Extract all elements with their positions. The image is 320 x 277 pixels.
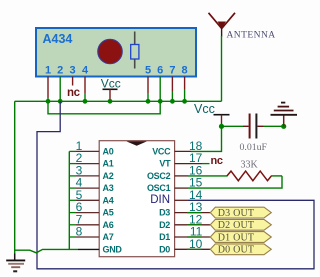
svg-text:8: 8 — [182, 65, 188, 77]
output tag D3 OUT — [210, 207, 271, 219]
svg-text:A6: A6 — [103, 220, 114, 230]
svg-text:OSC1: OSC1 — [147, 183, 171, 193]
ground (top right, inverted) — [271, 103, 298, 127]
svg-text:1: 1 — [45, 65, 51, 77]
junction dots on rail — [46, 99, 187, 104]
svg-text:5: 5 — [145, 65, 151, 77]
svg-text:D2: D2 — [159, 220, 170, 230]
svg-text:10: 10 — [189, 237, 203, 251]
ground (bottom left) — [6, 254, 25, 272]
svg-text:D2 OUT: D2 OUT — [218, 220, 254, 231]
svg-text:3: 3 — [70, 65, 76, 77]
svg-text:A1: A1 — [103, 159, 114, 169]
svg-text:DIN: DIN — [150, 194, 170, 206]
wire: vcc node down to IC pin 18 — [191, 126, 222, 151]
wire: left vertical rail down to ground — [14, 101, 16, 254]
svg-text:6: 6 — [157, 65, 163, 77]
svg-text:D0 OUT: D0 OUT — [218, 245, 254, 256]
wire: vcc node to capacitor — [222, 125, 244, 127]
svg-text:D3 OUT: D3 OUT — [218, 208, 254, 219]
svg-text:A0: A0 — [103, 146, 114, 156]
svg-text:nc: nc — [211, 155, 223, 167]
svg-text:4: 4 — [82, 65, 89, 77]
wire: capacitor to ground node — [264, 125, 284, 127]
pin 4 stub — [84, 77, 86, 102]
node ground junction — [281, 124, 286, 129]
svg-text:A4: A4 — [103, 195, 114, 205]
svg-text:nc: nc — [67, 87, 81, 99]
right pin stubs — [175, 151, 211, 249]
svg-text:GND: GND — [103, 244, 123, 254]
svg-text:D0: D0 — [159, 244, 170, 254]
pin 7 stub — [171, 77, 173, 102]
capacitor C1 — [243, 114, 264, 139]
wire: lower parallel rail (pin1 to pin6) — [48, 101, 160, 114]
pin 6 stub — [159, 77, 161, 102]
svg-text:VT: VT — [159, 159, 171, 169]
output tag D2 OUT — [210, 219, 271, 231]
GND wire from left rail to IC GND pin (with hop over navy) — [15, 249, 78, 252]
pin 8 stub — [184, 77, 186, 102]
svg-text:A3: A3 — [103, 183, 114, 193]
IC U1 HT12D body — [99, 141, 174, 257]
A434 pin numbers 1-8 — [45, 65, 188, 77]
left pin numbers 1-8 — [76, 139, 83, 239]
left bus wire (A0-A7 commoned) — [68, 151, 70, 249]
svg-text:A7: A7 — [103, 232, 114, 242]
svg-text:D3: D3 — [159, 208, 170, 218]
wire: antenna down to rail — [221, 36, 223, 101]
svg-text:OSC2: OSC2 — [147, 171, 171, 181]
svg-text:8: 8 — [76, 225, 83, 239]
Vcc power symbol (below A434, pin4 area) — [101, 76, 121, 101]
svg-text:0.01uF: 0.01uF — [240, 142, 268, 153]
wire: main horizontal rail under A434 — [15, 100, 222, 102]
svg-text:D1: D1 — [159, 232, 170, 242]
svg-text:A5: A5 — [103, 208, 114, 218]
svg-text:Vcc: Vcc — [101, 76, 121, 90]
node Vcc junction — [219, 124, 224, 129]
output tag D1 OUT — [210, 232, 271, 244]
DIN net navy wire (pin2 A434 to DIN pin14 loop) — [37, 101, 314, 268]
svg-text:7: 7 — [169, 65, 175, 77]
resistor R1 33K (between OSC2 and OSC1) — [188, 171, 282, 188]
pin 2 stub — [59, 77, 61, 102]
crystal X1 (inside A434) — [131, 32, 139, 69]
pin 3 stub (nc) — [72, 77, 74, 86]
left pin stubs 1-8 — [76, 151, 99, 237]
LED D1 (red circle inside A434) — [98, 39, 122, 63]
svg-text:ANTENNA: ANTENNA — [227, 30, 276, 40]
svg-text:A2: A2 — [103, 171, 114, 181]
IC right pin labels — [147, 146, 171, 254]
right pin numbers — [189, 139, 203, 251]
pin 5 stub — [147, 77, 149, 102]
antenna AE1 — [209, 13, 236, 37]
svg-text:VCC: VCC — [152, 146, 171, 156]
svg-text:A434: A434 — [43, 32, 73, 46]
svg-text:Vcc: Vcc — [194, 102, 215, 116]
pin 1 stub — [47, 77, 49, 102]
svg-text:2: 2 — [57, 65, 63, 77]
module A434 body — [36, 28, 196, 77]
svg-text:33K: 33K — [241, 159, 259, 170]
IC left pin labels — [103, 146, 123, 254]
svg-text:D1 OUT: D1 OUT — [218, 232, 254, 243]
Vcc power symbol (right, above cap) — [194, 102, 230, 126]
output tag D0 OUT — [210, 244, 271, 256]
